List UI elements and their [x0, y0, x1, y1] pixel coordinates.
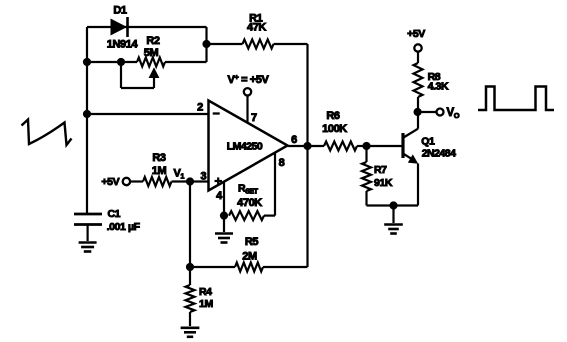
svg-text:2N2484: 2N2484 [422, 148, 456, 160]
junction dot R4/R5 node [186, 263, 194, 271]
svg-text:+5V: +5V [101, 176, 119, 188]
wire: D1 loop right vertical [205, 27, 207, 62]
R2 wiper arrow and tie to left end [120, 62, 122, 88]
junction dot pin 3 node V1 [186, 177, 194, 185]
square wave output waveform symbol [478, 87, 554, 111]
resistor R4 (1M) [186, 285, 195, 312]
terminal +5V (R8) [414, 44, 421, 51]
svg-text:RSET: RSET [238, 183, 259, 196]
wire: emitter/R7 ground row [367, 204, 419, 206]
wire: pin 4 down to RSET node [223, 182, 225, 216]
junction dot pin4/RSET/ground [220, 212, 228, 220]
op-amp U1 LM4250 triangle [209, 101, 288, 191]
svg-text:7: 7 [251, 112, 257, 124]
svg-text:.001 µF: .001 µF [107, 221, 141, 233]
wire: RSET node ground stem [223, 216, 225, 232]
junction dot collector/VO node [414, 108, 422, 116]
svg-text:1M: 1M [199, 298, 213, 310]
svg-text:100K: 100K [322, 123, 347, 135]
svg-text:470K: 470K [237, 197, 262, 209]
junction dot left rail / R2 row [83, 58, 91, 66]
svg-text:R7: R7 [374, 164, 387, 176]
transistor Q1 base bar [401, 133, 404, 158]
sawtooth input waveform symbol [22, 120, 72, 146]
svg-text:2M: 2M [242, 250, 257, 262]
svg-text:C1: C1 [108, 208, 121, 220]
transistor Q1 collector [404, 129, 419, 138]
capacitor C1 (.001 uF) [74, 213, 102, 216]
transistor Q1 base wire [367, 145, 402, 147]
resistor R5 (2M) [235, 263, 263, 272]
resistor R7 (91K) [362, 162, 371, 191]
svg-text:R4: R4 [199, 286, 212, 298]
wire: R2 row [87, 61, 137, 63]
svg-text:+5V: +5V [407, 28, 425, 40]
wire: R8 top lead [417, 52, 419, 63]
op-amp non-inverting input plus sign [215, 180, 223, 182]
wire: to VO terminal [418, 111, 437, 113]
junction dot pin 6 output node [303, 142, 311, 150]
junction dot R6/R7/base node [362, 142, 370, 150]
svg-text:1M: 1M [152, 165, 167, 177]
resistor RSET (470K) [229, 211, 264, 220]
wire: R1 row [207, 43, 243, 45]
wire: pin 3 row (R3 to op-amp) [130, 180, 143, 182]
terminal VO [437, 109, 444, 116]
svg-text:4.3K: 4.3K [428, 81, 449, 93]
wire: left rail (C1 / inverting input / feedback bus) [86, 27, 88, 214]
svg-text:91K: 91K [374, 177, 393, 189]
wire: pin 7 to V+ terminal [246, 96, 248, 124]
svg-text:R3: R3 [152, 152, 166, 164]
wire: ground stem [392, 206, 394, 224]
wire: pin 2 input row [87, 113, 209, 115]
svg-text:R2: R2 [146, 35, 160, 47]
wire: R5 row [190, 266, 235, 268]
junction dot emitter ground node [389, 201, 397, 209]
wire: node V1 down to R4/R5 node [189, 182, 191, 268]
wire: R4 top lead [189, 267, 191, 285]
junction dot R2 wiper node [117, 58, 125, 66]
svg-text:LM4250: LM4250 [227, 140, 263, 152]
wire: R8 bottom lead [417, 97, 419, 112]
diode D1 (1N914) [111, 19, 128, 36]
svg-text:R5: R5 [245, 236, 259, 248]
ground for emitter [384, 223, 403, 226]
op-amp inverting input minus sign [213, 112, 220, 114]
svg-text:47K: 47K [247, 22, 266, 34]
svg-text:V+ = +5V: V+ = +5V [228, 73, 270, 87]
wire: top row to diode D1 [87, 26, 207, 28]
transistor Q1 emitter with arrow [404, 154, 412, 159]
resistor R2 (potentiometer 5M) [137, 58, 165, 67]
svg-text:6: 6 [291, 134, 297, 146]
junction dot left rail / pin 2 row [83, 110, 91, 118]
wire: right rail (R1 to pin6 to R5) [306, 44, 308, 267]
ground for R4 [181, 326, 200, 329]
wire: R4 bottom lead [189, 312, 191, 326]
wire: R7 top and bottom leads [365, 146, 367, 162]
svg-text:V1: V1 [174, 168, 185, 181]
ground for RSET node [215, 232, 233, 235]
resistor R1 (47K) [243, 40, 274, 49]
svg-text:R6: R6 [326, 110, 340, 122]
resistor R6 (100K) [324, 142, 357, 151]
svg-text:4: 4 [216, 190, 223, 202]
wire: op-amp output to R6 [288, 145, 325, 147]
svg-text:5M: 5M [144, 47, 159, 59]
junction dot D1 loop / R1 [202, 40, 210, 48]
svg-text:1N914: 1N914 [107, 38, 139, 50]
svg-text:D1: D1 [113, 5, 127, 17]
resistor R8 (4.3K) [414, 63, 423, 97]
svg-text:2: 2 [197, 101, 203, 113]
svg-text:8: 8 [279, 157, 285, 169]
resistor R3 (1M) [143, 177, 172, 186]
terminal +5V (R3 bias input) [123, 178, 130, 185]
ground for C1 [79, 241, 97, 244]
svg-text:3: 3 [201, 171, 207, 183]
svg-text:Q1: Q1 [421, 135, 435, 147]
wire: pin 8 down to RSET [274, 153, 276, 215]
svg-text:VO: VO [447, 107, 460, 120]
terminal V+ = +5V (pin 7) [244, 88, 251, 95]
